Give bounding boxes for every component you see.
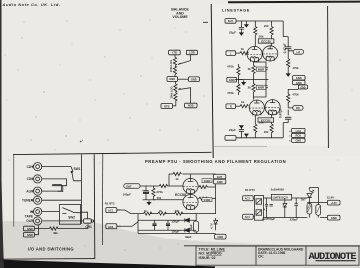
resistor box 2: [316, 205, 321, 216]
cap 100uF: [143, 186, 148, 190]
input node box L: [226, 51, 236, 56]
coupling wire top right: [283, 21, 288, 37]
EHT rail bottom: [236, 137, 283, 139]
svg-text:2x4700µF: 2x4700µF: [262, 217, 275, 221]
value 680R: [256, 67, 266, 71]
svg-text:GND: GND: [217, 180, 223, 184]
anode resistor 20k d: [271, 115, 273, 124]
svg-text:LM7812CU: LM7812CU: [273, 196, 288, 200]
svg-text:TAPE: TAPE: [25, 214, 33, 218]
jack CD2: [31, 175, 41, 183]
switch SW2 box: [59, 205, 80, 225]
bottom bus: [138, 230, 216, 233]
svg-text:CD1: CD1: [27, 165, 34, 169]
svg-text:LTB: LTB: [172, 51, 177, 55]
svg-text:VOLUME: VOLUME: [172, 15, 188, 19]
node box GND out: [213, 179, 225, 184]
svg-text:AUX: AUX: [26, 189, 34, 193]
tube name ECC82: [258, 118, 274, 123]
wire OUT jack: [42, 220, 84, 222]
psu input node box 1: [106, 208, 117, 213]
svg-text:OUT: OUT: [26, 219, 33, 223]
PSU right: filament regulator: [243, 188, 340, 221]
svg-text:470k: 470k: [227, 65, 234, 69]
rectifier rail 1: [138, 214, 196, 231]
svg-text:2x1N4002: 2x1N4002: [271, 187, 285, 191]
potentiometer VR1: [173, 57, 176, 65]
svg-text:100µF: 100µF: [123, 193, 131, 197]
anode resistor 20k b: [254, 21, 256, 27]
svg-text:22µF: 22µF: [229, 31, 236, 35]
wire: [307, 188, 327, 218]
svg-text:33k: 33k: [157, 196, 162, 200]
svg-text:2k: 2k: [248, 67, 252, 71]
svg-text:NO: M1PROG: NO: M1PROG: [199, 251, 222, 255]
node box L out: [293, 50, 303, 55]
selector wires: [42, 167, 73, 172]
resistor 39k: [175, 212, 183, 215]
svg-text:ROB: ROB: [188, 104, 194, 108]
svg-text:PREAMP PSU - SMOOTHING AND FIL: PREAMP PSU - SMOOTHING AND FILAMENT REGU…: [145, 159, 286, 164]
io panel left edge: [13, 155, 15, 227]
cap 10uF cylinder: [193, 221, 198, 232]
svg-text:2k: 2k: [159, 209, 162, 213]
grid stopper 1k bottom: [236, 105, 240, 107]
resistor 2k: [158, 212, 166, 215]
svg-text:100R: 100R: [204, 198, 211, 202]
tube V2a: [249, 100, 264, 115]
svg-text:Audio Note Co. UK. Ltd.: Audio Note Co. UK. Ltd.: [2, 2, 61, 7]
resistor 100R a: [198, 186, 199, 188]
lower rail: [140, 185, 169, 187]
svg-text:270k: 270k: [156, 190, 163, 194]
resistor 270k series: [159, 184, 167, 187]
cap 120uF a: [153, 220, 157, 230]
svg-text:AC3: AC3: [245, 197, 251, 201]
svg-text:GND: GND: [229, 78, 235, 82]
wire pot1 top: [174, 55, 176, 57]
svg-text:R1 RT3: R1 RT3: [105, 202, 115, 206]
linestage bottom rule: [213, 145, 267, 147]
tube V1b: [263, 46, 278, 61]
LED: [309, 190, 314, 193]
anode resistor 20k a: [271, 21, 273, 27]
node box right mid 3: [298, 85, 307, 89]
svg-text:LO: LO: [296, 50, 300, 54]
svg-text:680R: 680R: [258, 86, 264, 90]
svg-text:ECC82: ECC82: [261, 39, 271, 43]
io panel right edge: [80, 154, 82, 224]
svg-text:R1 RT3: R1 RT3: [245, 188, 255, 192]
svg-text:2k7: 2k7: [301, 198, 306, 202]
svg-text:100k LOG: 100k LOG: [169, 60, 173, 72]
ground symbol mid: [238, 79, 242, 81]
cathode gnd rail: [235, 79, 269, 81]
grid resistor 470k right upper: [287, 59, 290, 67]
grid stopper 1k top: [236, 52, 240, 54]
psu out rail: [207, 174, 215, 214]
svg-text:AC2: AC2: [108, 225, 114, 229]
svg-text:LOB: LOB: [189, 51, 195, 55]
svg-text:2k: 2k: [248, 86, 252, 90]
svg-text:22µF: 22µF: [229, 128, 236, 132]
svg-text:470k: 470k: [227, 91, 234, 95]
output boxes stacked: [292, 128, 305, 132]
svg-text:20k: 20k: [264, 130, 269, 134]
resistor 2k7 box: [307, 203, 312, 214]
left scan edge: [0, 0, 4, 268]
svg-text:1k: 1k: [144, 209, 147, 213]
svg-text:20k: 20k: [259, 34, 264, 38]
node box EHT top: [225, 19, 236, 24]
svg-text:39µF: 39µF: [185, 235, 192, 239]
sheet divider right of linestage: [327, 6, 330, 148]
wiper wire pot1: [178, 55, 190, 65]
wire sw2 out to CH1: [81, 212, 88, 219]
svg-text:GND: GND: [331, 216, 337, 220]
svg-text:+: +: [142, 188, 144, 192]
svg-text:470k: 470k: [292, 93, 299, 97]
svg-text:LINESTAGE: LINESTAGE: [222, 8, 250, 13]
node box GND right: [188, 77, 199, 82]
diode D3: [283, 198, 287, 218]
value 100R: [202, 198, 212, 202]
capacitor 22uF top: [239, 21, 244, 31]
tube V1a: [247, 46, 262, 61]
sheet bottom rule: [0, 258, 95, 261]
svg-text:0.47µF: 0.47µF: [279, 108, 283, 118]
wire: [178, 78, 189, 80]
svg-text:CK:: CK:: [258, 255, 264, 259]
jack AUX: [31, 187, 41, 195]
sheet divider vertical x103: [101, 154, 103, 246]
anode resistor 20k c: [254, 115, 256, 124]
cap 4.7 b: [270, 204, 273, 206]
reg input node box 1: [243, 196, 254, 201]
svg-text:TUNER: TUNER: [22, 199, 34, 203]
svg-text:220µF: 220µF: [290, 218, 298, 222]
regulator LM7812: [271, 194, 291, 200]
cap 4.7 a: [265, 198, 268, 218]
value 680R: [256, 85, 266, 89]
svg-text:AC1: AC1: [108, 209, 114, 213]
output node box GND: [327, 215, 340, 220]
svg-text:GND: GND: [191, 77, 197, 81]
connector CH1: [84, 219, 92, 223]
svg-text:12.6V: 12.6V: [327, 196, 335, 200]
cathode network top: 2k resistor: [253, 62, 255, 65]
svg-text:680R: 680R: [258, 67, 264, 71]
diode D1: [185, 218, 190, 222]
gnd bar: [143, 199, 156, 201]
node box RTB: [161, 104, 173, 109]
svg-text:CD2: CD2: [27, 177, 34, 181]
svg-text:RCH: RCH: [295, 134, 301, 138]
svg-text:1k: 1k: [241, 100, 245, 104]
tube V3a ECC88: [183, 178, 198, 193]
svg-text:1k: 1k: [175, 177, 179, 181]
jack TUNER: [31, 196, 41, 204]
svg-text:4.7V: 4.7V: [210, 223, 214, 229]
coupling wire bottom right: [283, 123, 288, 138]
cathode network bottom: 2k + 680uF: [253, 80, 255, 84]
bridge rectifier: [254, 195, 263, 220]
sheet divider horizontal mid: [13, 152, 212, 154]
wiper wire pot2: [178, 88, 190, 104]
psu input node box 2: [106, 224, 117, 229]
wire out bottom: [173, 104, 176, 106]
smoothing rail: [169, 174, 216, 186]
svg-text:1k: 1k: [241, 47, 245, 51]
value 100R: [202, 179, 212, 183]
svg-text:120µF: 120µF: [171, 229, 179, 233]
svg-text:+12V: +12V: [331, 201, 337, 205]
sheet divider vertical x95: [93, 154, 96, 259]
sheet divider vertical left of linestage: [211, 4, 213, 158]
top scan edge line: [228, 1, 360, 4]
svg-text:GND: GND: [296, 81, 302, 85]
svg-text:LCH: LCH: [296, 129, 301, 133]
svg-text:20k: 20k: [259, 121, 264, 125]
svg-text:EHT: EHT: [217, 175, 223, 179]
jack CD1: [31, 163, 41, 171]
svg-text:4.7: 4.7: [264, 207, 268, 211]
title block frame: [184, 245, 360, 247]
node box GND mid-left: [227, 77, 237, 82]
svg-text:RTB: RTB: [164, 104, 169, 108]
wire: [153, 174, 190, 200]
jack IN: [31, 208, 41, 216]
svg-text:GND: GND: [300, 86, 306, 89]
gnd node box 1: [23, 226, 34, 231]
svg-text:GND: GND: [27, 233, 33, 237]
svg-text:10µF: 10µF: [189, 224, 193, 231]
cathode bypass 680uF top: [254, 62, 268, 80]
resistor 1k: [144, 212, 152, 215]
capacitor 22uF bottom: [239, 128, 244, 138]
svg-text:ISSUE: 02: ISSUE: 02: [199, 256, 216, 260]
coupling cap 0.47uF ch2: [285, 110, 291, 123]
tube name ECC82: [258, 39, 274, 44]
svg-text:CH1: CH1: [85, 225, 92, 229]
node box right mid 1: [293, 76, 305, 80]
cap 220uF: [294, 198, 298, 218]
reg input node box 2: [243, 214, 254, 219]
wire: [117, 210, 121, 226]
grid leak 470k upper: [237, 64, 239, 67]
pencil mark: [66, 136, 84, 143]
svg-text:SW2: SW2: [68, 215, 75, 219]
svg-text:SW1: SW1: [73, 167, 80, 171]
svg-text:0.47µF: 0.47µF: [283, 43, 287, 53]
node box R out: [293, 106, 303, 111]
node box LTB: [169, 50, 181, 55]
resistor 33k shunt: [152, 186, 154, 188]
grid leak 470k lower: [237, 80, 239, 84]
zener: [214, 218, 218, 230]
resistor 100R b: [198, 198, 199, 200]
node box ROB: [185, 103, 197, 108]
svg-text:RO: RO: [296, 106, 300, 110]
svg-text:EHT: EHT: [126, 184, 132, 188]
shadow band bottom: [0, 221, 360, 268]
svg-text:GND: GND: [217, 235, 223, 239]
svg-text:120µF: 120µF: [171, 220, 179, 224]
svg-text:R: R: [230, 105, 232, 109]
wire IN to sw2: [42, 211, 60, 213]
svg-text:GND: GND: [169, 77, 175, 81]
node box HT in: [124, 184, 140, 188]
svg-text:ECC88: ECC88: [175, 193, 186, 197]
resistor 1k series: [173, 172, 181, 175]
node box GND bottom: [215, 234, 226, 239]
wire: [253, 198, 307, 218]
resistor 39k wire: [39, 224, 88, 228]
svg-text:470k: 470k: [292, 66, 299, 70]
svg-text:EHT: EHT: [228, 19, 234, 23]
gnd node box 2: [23, 232, 34, 237]
node box EHT out: [213, 174, 225, 179]
svg-text:AC4: AC4: [245, 215, 251, 219]
node box LOB: [186, 50, 197, 54]
potentiometer VR2: [174, 81, 176, 83]
svg-text:39k: 39k: [53, 231, 58, 235]
heater wire: [117, 210, 216, 226]
svg-text:100k LOG: 100k LOG: [170, 86, 174, 98]
svg-text:GND: GND: [27, 227, 33, 231]
svg-text:GND: GND: [295, 139, 301, 143]
tube V2b: [265, 100, 280, 115]
svg-text:I/O AND SWITCHING: I/O AND SWITCHING: [28, 247, 74, 252]
tube V3b ECC88: [183, 194, 198, 209]
decoupling stub: [245, 21, 247, 22]
diode D2: [185, 228, 190, 232]
gnd stubs: [34, 225, 38, 235]
tick mark: [203, 21, 208, 23]
coupling cap 0.47uF ch1: [285, 37, 291, 51]
jack OUT: [31, 217, 41, 225]
node box right mid 2: [293, 80, 305, 84]
svg-text:100R: 100R: [204, 179, 211, 183]
input node box R: [226, 104, 236, 109]
svg-text:20k: 20k: [264, 24, 269, 28]
node box GND left: [167, 77, 178, 82]
scan black wedge bottom-left: [0, 260, 215, 268]
grid resistor 470k right lower: [287, 94, 290, 102]
svg-text:39k: 39k: [175, 209, 180, 213]
svg-text:GND: GND: [296, 76, 302, 80]
node box EHT bottom: [225, 136, 236, 141]
EHT rail top: [236, 20, 283, 22]
cap 120uF b: [166, 220, 170, 230]
output node box 12.6V: [327, 200, 340, 205]
rectifier rail 2: [138, 229, 196, 231]
